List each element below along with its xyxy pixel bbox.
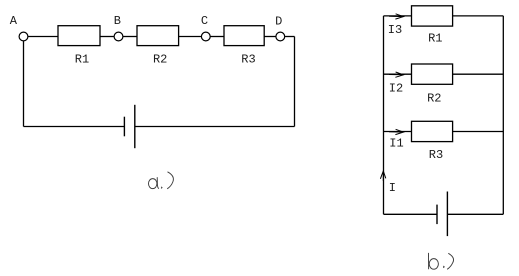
node A [19, 32, 28, 41]
wire bottom left to battery [384, 213, 438, 215]
wire R3 to D [264, 36, 276, 38]
resistor R2 (parallel circuit) [412, 64, 453, 84]
resistor R1 (parallel circuit) [412, 6, 453, 26]
svg-text:R3: R3 [241, 53, 255, 67]
caption b.) [429, 253, 454, 269]
wire branch2 right [453, 73, 504, 75]
wire left side up to A [23, 41, 25, 127]
wire R2 to C [179, 36, 202, 38]
svg-text:B: B [114, 14, 121, 28]
svg-text:R1: R1 [428, 32, 442, 46]
svg-text:A: A [10, 14, 18, 28]
svg-text:R2: R2 [427, 91, 441, 105]
wire battery to bottom right [447, 213, 503, 215]
wire battery to bottom left [24, 126, 125, 128]
wire branch2 left [384, 73, 412, 75]
resistor R1 (series circuit) [58, 26, 100, 46]
node C [201, 32, 210, 41]
wire branch3 left [384, 131, 412, 133]
svg-text:I2: I2 [389, 82, 403, 96]
svg-text:R3: R3 [429, 148, 443, 162]
wire branch1 left [384, 15, 412, 17]
node B [114, 32, 123, 41]
current arrow I on left bus [380, 171, 385, 181]
wire right side down [294, 37, 296, 127]
battery B1 short plate [123, 117, 125, 137]
wire right bus (top to bottom) [502, 16, 504, 214]
svg-text:I3: I3 [388, 23, 402, 37]
wire branch1 right [453, 15, 504, 17]
wire C to R3 [210, 36, 224, 38]
battery B1 long plate [134, 105, 136, 148]
resistor R2 (series circuit) [137, 26, 179, 46]
current arrow I2 on branch2 [389, 72, 403, 77]
wire R1 to B [100, 36, 114, 38]
wire A to R1 [28, 36, 58, 38]
battery B2 long plate [446, 192, 448, 237]
current arrow I3 on branch1 [389, 14, 403, 19]
wire branch3 right [453, 131, 504, 133]
caption a.) [149, 172, 174, 189]
node D [276, 32, 285, 41]
resistor R3 (series circuit) [224, 26, 264, 46]
current arrow I1 on branch3 [389, 129, 403, 134]
resistor R3 (parallel circuit) [412, 121, 453, 141]
wire D to right corner [285, 36, 295, 38]
svg-text:I: I [389, 181, 396, 195]
svg-text:R1: R1 [75, 53, 89, 67]
svg-text:C: C [201, 14, 208, 28]
wire left bus (top to bottom) [383, 16, 385, 214]
svg-text:R2: R2 [153, 53, 167, 67]
wire bottom right to battery [135, 126, 295, 128]
battery B2 short plate [436, 205, 438, 225]
svg-text:D: D [275, 15, 282, 29]
svg-text:I1: I1 [389, 137, 403, 151]
wire B to R2 [123, 36, 137, 38]
